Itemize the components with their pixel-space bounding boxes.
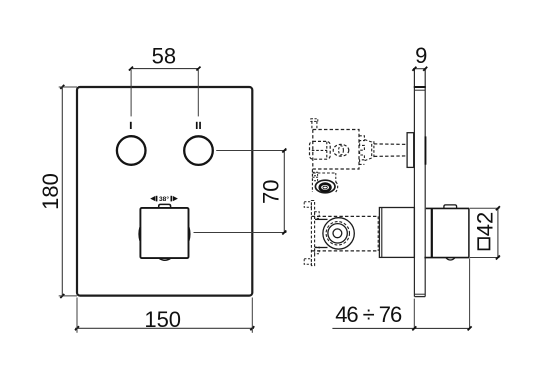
dimension 70 line <box>283 151 285 233</box>
handle side view: back thick line <box>431 208 433 257</box>
handle right grip arc <box>188 227 191 240</box>
handle top tab <box>159 204 171 208</box>
index mark I <box>130 122 132 129</box>
upper body bottom clip <box>313 172 318 176</box>
dimension 58 tick right <box>196 67 200 71</box>
upper castle (serrated) profile <box>359 136 364 165</box>
upper supply port center <box>323 186 327 189</box>
upper center ellipse (temp stop) <box>333 144 349 156</box>
svg-text:46 ÷ 76: 46 ÷ 76 <box>335 302 402 327</box>
wall plate side: left edge <box>413 69 415 297</box>
dimension 150 tick right <box>250 326 254 330</box>
dimension 42 extension top <box>470 207 500 209</box>
upper knob edge-on (thick bar on plate front) <box>425 136 427 164</box>
upper left attachment inner line <box>326 142 328 159</box>
lower volume control outer circle <box>323 218 354 249</box>
upper stem (dashed) top line <box>374 143 407 146</box>
dimension 150 extension right <box>251 298 253 333</box>
dimension 58 extension right <box>197 70 199 117</box>
dimension 70 tick bottom <box>282 231 286 235</box>
lower volume control center circle <box>333 229 342 238</box>
svg-text:58: 58 <box>152 43 176 68</box>
svg-text:70: 70 <box>258 179 283 203</box>
dimension 9 line <box>413 68 427 70</box>
dimension 180 extension bottom <box>59 295 77 297</box>
handle side view: top edge <box>426 207 469 209</box>
dimension 42 extension bottom <box>470 257 500 259</box>
upper body bottom connector (dashed) <box>313 172 336 174</box>
knob left (circle) <box>117 136 146 165</box>
dimension 42 tick top <box>496 206 500 210</box>
upper supply port outer ellipse <box>315 180 335 193</box>
dimension 180 line <box>61 87 63 296</box>
dimension 70 extension from handle <box>194 232 287 234</box>
dimension square symbol <box>478 238 489 249</box>
flange top-right nub <box>315 212 320 219</box>
dimension 150 line <box>75 327 254 329</box>
wall plate side: bottom inner line <box>414 293 425 295</box>
dimension 70 tick top <box>282 149 286 153</box>
upper stem (dashed) bottom line <box>374 155 407 158</box>
dimension 150 tick left <box>75 326 79 330</box>
dimension 70 extension from right knob <box>216 150 286 152</box>
dimension 42 tick bottom <box>496 256 500 260</box>
dimension 150 extension left <box>76 298 78 333</box>
dimension 9 tick left <box>412 67 416 71</box>
wall plate side: right edge <box>424 69 426 297</box>
dimension 180 extension top <box>59 86 77 88</box>
lower volume control mid circle <box>328 224 347 243</box>
handle side bottom bump <box>446 258 455 260</box>
wall plate side: top inner line <box>414 89 425 91</box>
knob right (circle) <box>184 136 213 165</box>
wall plate side: top edge thick <box>414 86 426 88</box>
dimension 58 tick left <box>129 67 133 71</box>
38-degree label arrows <box>150 196 155 201</box>
svg-text:38°: 38° <box>159 195 169 203</box>
upper supply port inner dark ring <box>320 184 331 192</box>
svg-text:180: 180 <box>38 173 63 210</box>
lower body outline (dashed) <box>311 215 378 217</box>
upper left attachment (dashed rounded) <box>310 141 331 159</box>
dimension 9 tick right <box>423 67 427 71</box>
dimension 46-76 tick right <box>468 326 472 330</box>
wall plate (front view) <box>77 87 252 296</box>
svg-text:150: 150 <box>144 307 181 332</box>
upper bleed stub <box>311 121 313 129</box>
dimension 46-76 line <box>332 327 469 329</box>
svg-text:9: 9 <box>415 43 427 68</box>
upper knob adapter (solid, behind plate) <box>407 133 414 168</box>
index mark II <box>196 122 198 129</box>
upper taper to stem <box>365 140 372 161</box>
svg-text:42: 42 <box>472 212 497 236</box>
dimension 58 extension left <box>130 70 132 117</box>
dimension 46-76 tick mid <box>412 326 416 330</box>
extension line below handle right <box>469 258 471 328</box>
upper left attachment center line <box>312 149 327 151</box>
lower volume control cap lines (solid) <box>315 218 328 220</box>
lower mounting flange (dashed) <box>311 201 314 266</box>
lower neck (solid) <box>379 208 414 258</box>
dimension 58 line <box>131 68 199 70</box>
flange bottom-left nub <box>304 259 311 265</box>
temperature handle square <box>140 208 188 258</box>
lower volume control dashed circle <box>326 222 349 245</box>
wall plate side: bottom edge <box>414 296 425 298</box>
lower neck inner line <box>381 208 383 258</box>
extension line below plate <box>413 299 415 329</box>
upper supply port right arc <box>336 182 338 192</box>
flange top-left nub <box>304 202 311 208</box>
handle left grip arc <box>138 227 141 240</box>
handle side view: bottom edge <box>424 257 469 259</box>
handle side view: right edge <box>468 208 470 257</box>
handle side top tab <box>444 205 457 208</box>
dimension 180 tick bottom <box>60 294 64 298</box>
dimension 180 tick top <box>60 85 64 89</box>
upper cartridge body (hidden, dashed) <box>313 130 359 170</box>
handle bottom arc <box>159 258 171 260</box>
upper center slot <box>339 146 344 155</box>
dimension 42 line <box>497 208 499 257</box>
flange bottom-right nub <box>315 247 320 254</box>
